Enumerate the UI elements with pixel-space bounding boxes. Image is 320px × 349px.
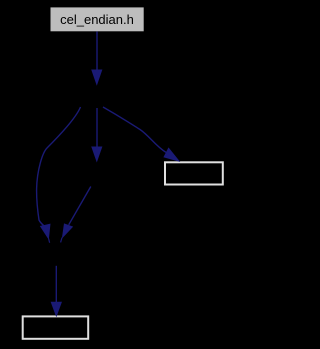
arrowhead into right box xyxy=(163,147,180,162)
wire stub below right arrowhead xyxy=(61,238,62,243)
arrowhead into node A xyxy=(91,70,102,86)
right box (unlabeled node) xyxy=(165,162,223,184)
wire node A to node B (middle) xyxy=(96,108,98,148)
wire node A to right box xyxy=(103,107,166,152)
svg-text:cel_endian.h: cel_endian.h xyxy=(60,12,134,27)
arrowhead into node B xyxy=(91,147,102,163)
wire node C to bottom box xyxy=(55,266,57,303)
arrowhead into bottom box xyxy=(51,302,62,318)
wire node B to node C xyxy=(69,187,91,225)
arrowhead into node C (right) xyxy=(62,223,73,238)
wire cel_endian.h to node A xyxy=(96,32,98,71)
node cel_endian.h xyxy=(51,7,144,31)
wire stub below left arrowhead xyxy=(49,239,50,243)
bottom box (unlabeled node) xyxy=(23,316,89,338)
wire node A to node C (long left curve) xyxy=(37,107,81,226)
arrowhead into node C (left) xyxy=(40,224,51,240)
